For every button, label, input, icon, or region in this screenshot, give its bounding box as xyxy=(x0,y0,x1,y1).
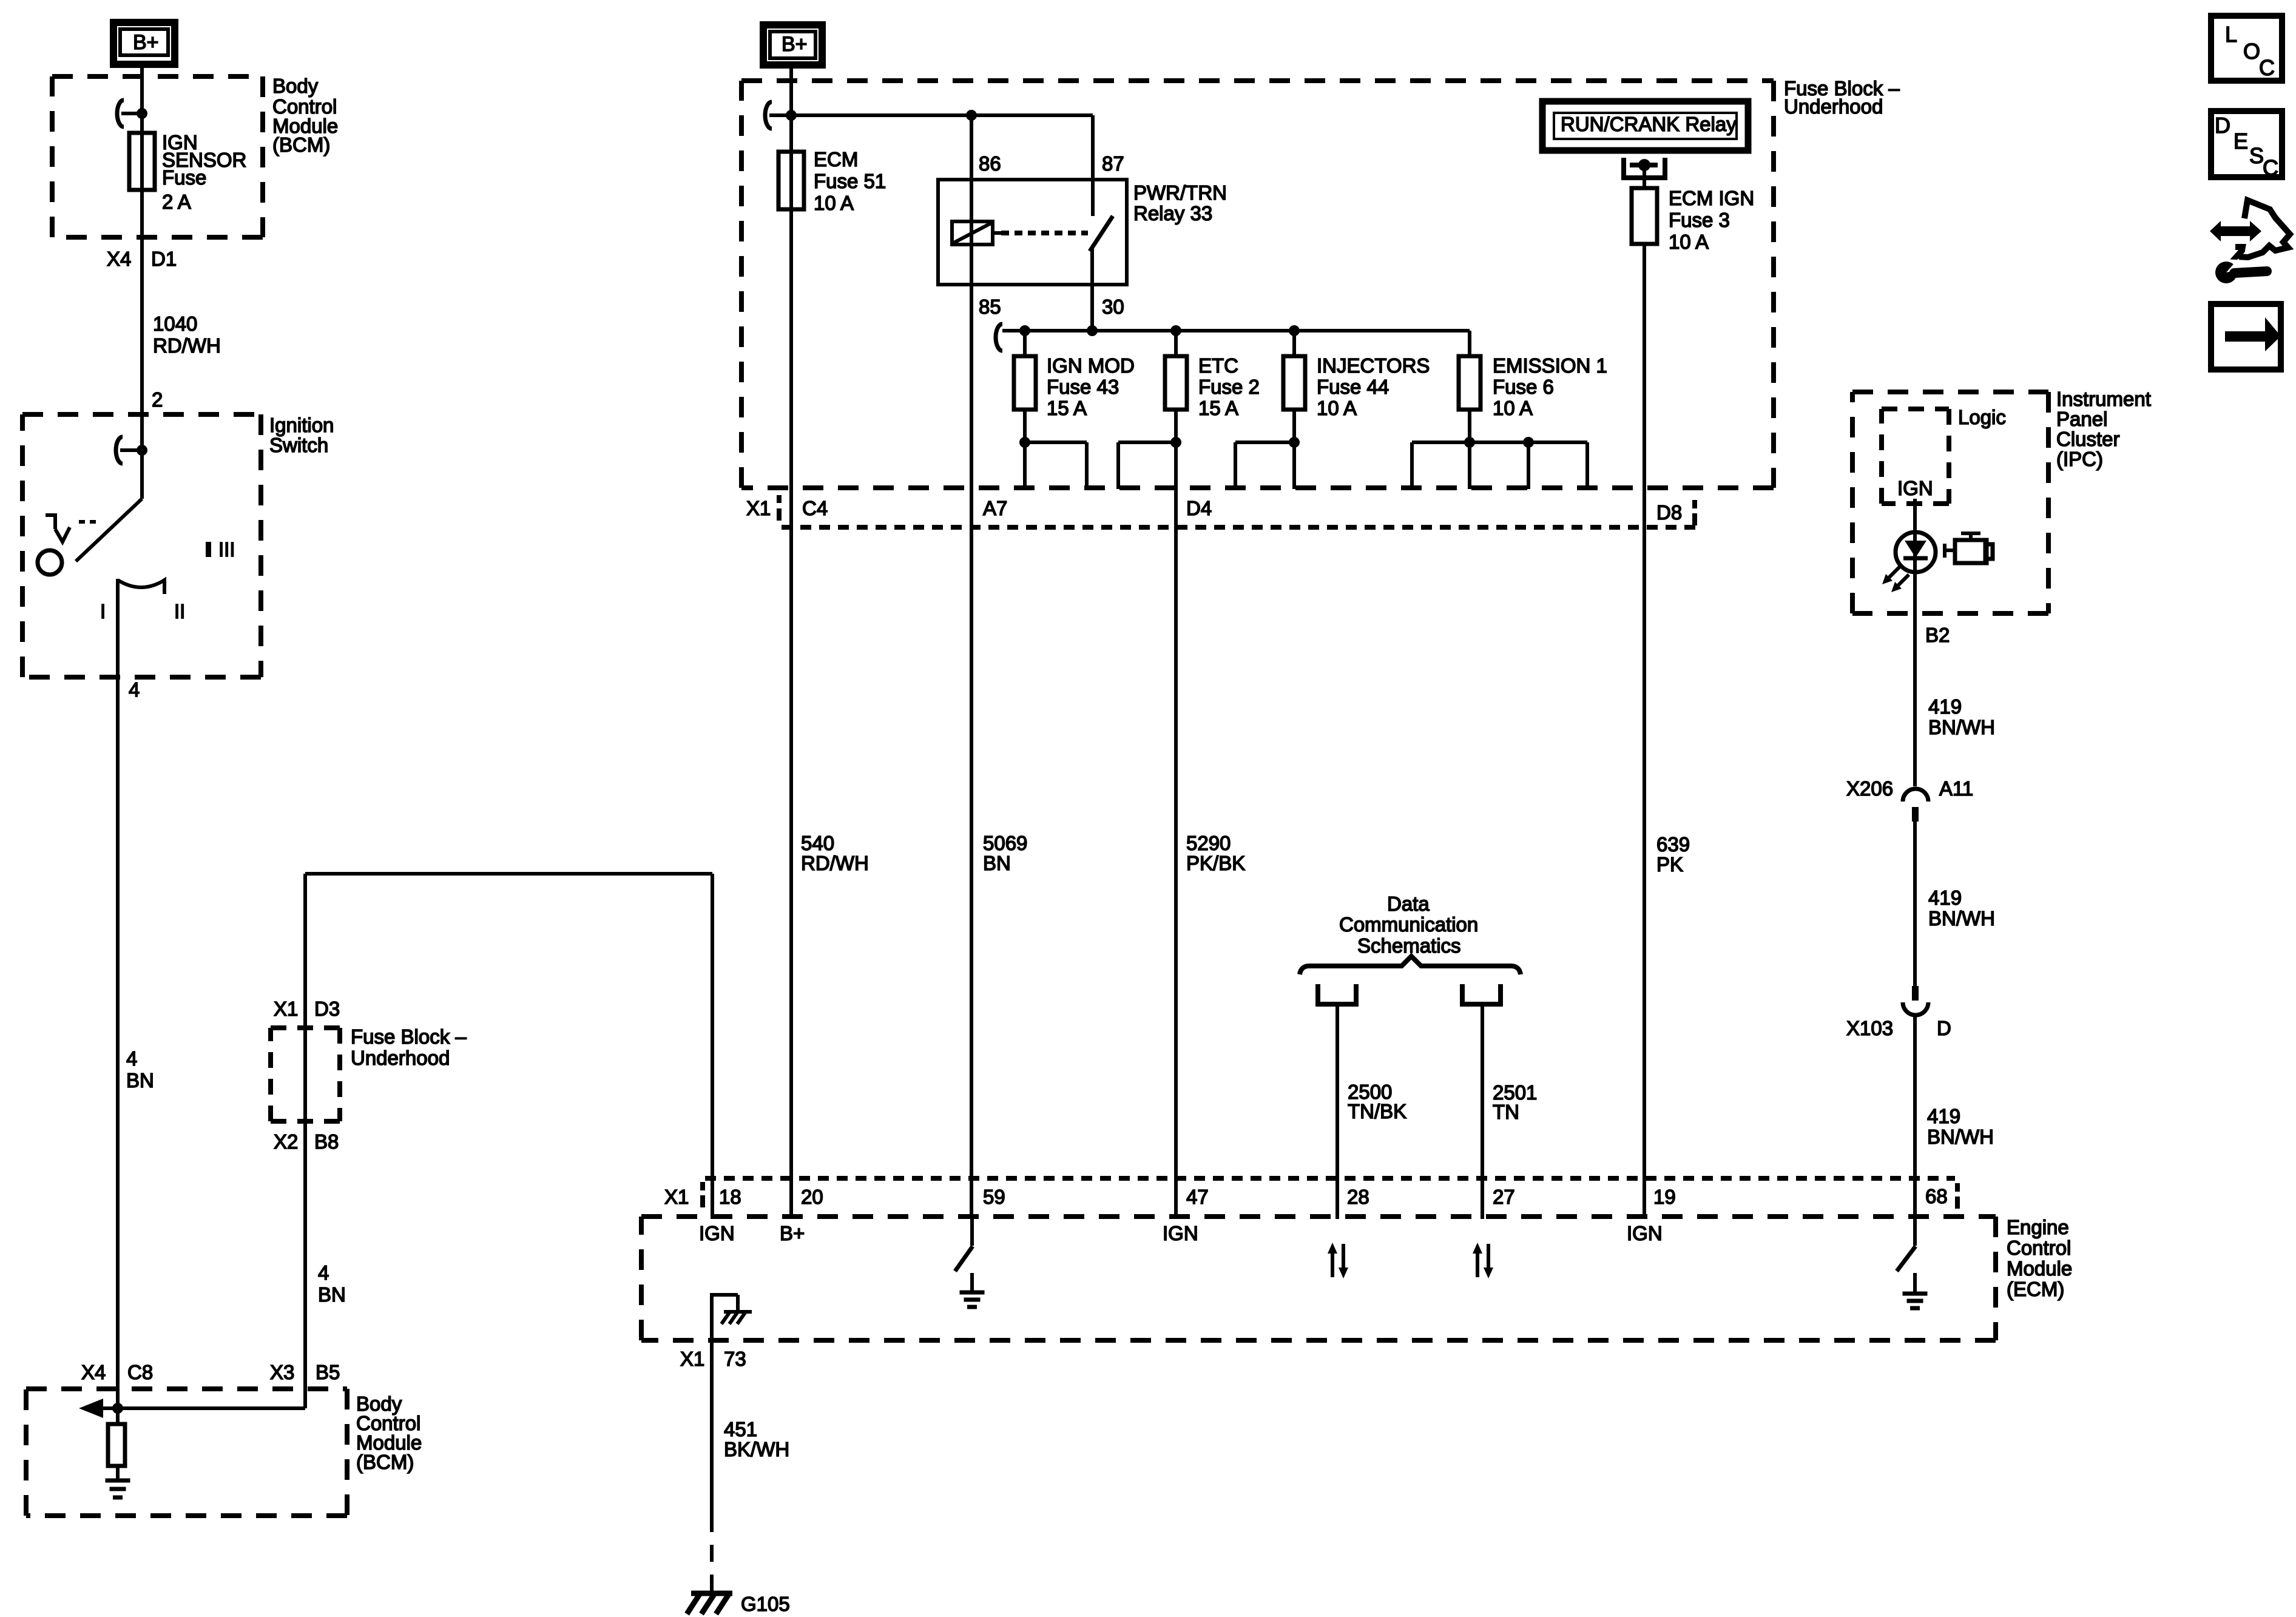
connector cup to data bus (pin 28) xyxy=(1318,984,1356,1219)
fuse ECM Fuse 51 10 A xyxy=(778,152,804,209)
svg-text:O: O xyxy=(2243,39,2260,64)
fuse block underhood pass-through dashed box xyxy=(271,1025,340,1030)
position arc between I and II xyxy=(118,580,164,594)
svg-text:Fuse 3: Fuse 3 xyxy=(1669,209,1730,231)
svg-text:X2: X2 xyxy=(274,1130,298,1153)
connector row X1: C4 A7 D4 D8 xyxy=(746,495,1697,525)
svg-text:IGN MOD: IGN MOD xyxy=(1047,354,1135,377)
ground earth symbol at pin 68 xyxy=(1903,1273,1928,1308)
svg-text:TN/BK: TN/BK xyxy=(1348,1100,1406,1122)
svg-text:2 A: 2 A xyxy=(162,191,191,213)
instrument panel cluster (IPC) dashed box xyxy=(1852,390,2048,394)
svg-text:4: 4 xyxy=(129,678,140,701)
wire ECM IGN fuse to ECM pin 19 xyxy=(1643,244,1646,1219)
svg-text:Ignition: Ignition xyxy=(269,414,334,436)
svg-text:27: 27 xyxy=(1493,1186,1515,1208)
svg-text:(IPC): (IPC) xyxy=(2056,448,2103,470)
svg-text:59: 59 xyxy=(983,1186,1005,1208)
svg-text:B+: B+ xyxy=(780,1222,805,1244)
svg-text:BK/WH: BK/WH xyxy=(724,1438,789,1460)
fuse IGN MOD Fuse 43 xyxy=(1014,331,1135,442)
connector terminal at BCM D1 input xyxy=(117,100,147,127)
wire 87 stub xyxy=(1091,115,1095,216)
svg-text:(ECM): (ECM) xyxy=(2007,1278,2064,1300)
svg-text:Data: Data xyxy=(1387,893,1430,915)
svg-text:ECM IGN: ECM IGN xyxy=(1669,187,1754,209)
wire label 639 PK xyxy=(1656,833,1690,876)
svg-text:A11: A11 xyxy=(1939,777,1973,800)
connector cup to data bus (pin 27) xyxy=(1462,984,1501,1219)
wire label 4 BN (center) xyxy=(318,1261,346,1306)
label PWR/TRN Relay 33 xyxy=(1133,181,1227,224)
svg-text:451: 451 xyxy=(724,1418,757,1440)
svg-text:C4: C4 xyxy=(802,497,828,519)
svg-text:4: 4 xyxy=(126,1047,137,1070)
node junction below IGN MOD fuse xyxy=(1019,437,1030,448)
svg-text:Underhood: Underhood xyxy=(351,1047,450,1069)
svg-text:G105: G105 xyxy=(741,1593,790,1615)
svg-text:X4: X4 xyxy=(107,248,131,270)
connector X206 / A11 xyxy=(1846,777,1973,822)
svg-text:X4: X4 xyxy=(81,1361,106,1383)
wire internal BCM bus with arrow xyxy=(79,1399,305,1418)
svg-text:10 A: 10 A xyxy=(1493,397,1533,419)
wire label 540 RD/WH xyxy=(801,832,869,874)
wire horizontal link to ECM pin 18 xyxy=(305,872,712,876)
wire B+ feed to ECM fuse 51 and pin 20 xyxy=(789,65,793,1219)
svg-text:D8: D8 xyxy=(1656,501,1682,524)
label Body Control Module (BCM) bottom xyxy=(356,1393,422,1473)
svg-text:2: 2 xyxy=(152,388,163,411)
body control module (BCM) top dashed box xyxy=(52,74,263,79)
svg-text:C8: C8 xyxy=(127,1361,153,1383)
ground earth symbol at pin 59 xyxy=(960,1273,985,1307)
ignition switch dashed box xyxy=(22,412,261,417)
svg-text:C: C xyxy=(2259,55,2275,80)
svg-text:B+: B+ xyxy=(133,31,159,54)
icon box LOC xyxy=(2211,16,2282,81)
svg-text:BN/WH: BN/WH xyxy=(1928,907,1995,930)
label Engine Control Module (ECM) xyxy=(2007,1216,2072,1300)
bus bar staple below IGN MOD fuse xyxy=(1025,442,1087,489)
svg-text:D4: D4 xyxy=(1186,497,1212,519)
label Instrument Panel Cluster (IPC) xyxy=(2056,388,2151,470)
relay RUN/CRANK Relay labeled box xyxy=(1542,101,1748,150)
svg-text:Underhood: Underhood xyxy=(1784,95,1883,118)
svg-text:X1: X1 xyxy=(664,1186,689,1208)
svg-text:18: 18 xyxy=(719,1186,741,1208)
svg-text:19: 19 xyxy=(1653,1186,1676,1208)
svg-text:RUN/CRANK Relay: RUN/CRANK Relay xyxy=(1561,113,1737,135)
wire label 5290 PK/BK xyxy=(1186,832,1245,874)
svg-text:419: 419 xyxy=(1928,695,1962,718)
svg-text:Instrument: Instrument xyxy=(2056,388,2151,410)
svg-text:PK: PK xyxy=(1656,853,1683,876)
svg-text:BN/WH: BN/WH xyxy=(1928,716,1995,738)
svg-text:28: 28 xyxy=(1347,1186,1369,1208)
svg-text:D3: D3 xyxy=(314,998,340,1020)
ground G105 chassis symbol xyxy=(687,1593,732,1614)
bus bar staple left of ETC fuse xyxy=(1118,442,1176,489)
node junction BCM xyxy=(112,1403,123,1414)
label Fuse Block - Underhood xyxy=(1784,77,1900,118)
pins X4 C8 X3 B5 xyxy=(81,1361,340,1383)
fuse bus inside fuse block xyxy=(996,324,1470,351)
icon box DESC xyxy=(2211,111,2282,180)
svg-text:Fuse Block –: Fuse Block – xyxy=(351,1025,467,1048)
svg-text:20: 20 xyxy=(801,1186,823,1208)
brace for data communication schematics xyxy=(1300,956,1521,974)
svg-text:B+: B+ xyxy=(782,33,808,56)
wire label 2500 TN/BK xyxy=(1348,1081,1406,1122)
svg-text:ETC: ETC xyxy=(1198,354,1238,377)
svg-text:Schematics: Schematics xyxy=(1357,934,1461,957)
wire relay 30 to fuse bus xyxy=(1090,249,1094,331)
ECM data arrows pin 27 xyxy=(1473,1243,1493,1278)
svg-text:BN: BN xyxy=(318,1283,346,1306)
relay switch blade 87-30 xyxy=(1090,216,1113,251)
fuse ETC Fuse 2 xyxy=(1165,331,1260,442)
indicator light arrows xyxy=(1882,567,1909,592)
svg-text:540: 540 xyxy=(801,832,834,854)
svg-text:Fuse 43: Fuse 43 xyxy=(1047,376,1119,398)
svg-text:15 A: 15 A xyxy=(1198,397,1238,419)
wire ignition switch pin 4 down to BCM (circuit 4 BN) xyxy=(116,579,120,1408)
wire label 451 BK/WH xyxy=(724,1418,789,1460)
wire B+ to ignition switch (circuit 1040) xyxy=(140,65,144,499)
svg-text:10 A: 10 A xyxy=(814,192,854,214)
ECM internal switch at pin 68 xyxy=(1897,1219,1916,1271)
connector terminal at ignition switch pin 2 xyxy=(116,437,147,464)
svg-text:A7: A7 xyxy=(983,497,1007,519)
svg-text:4: 4 xyxy=(318,1261,329,1284)
svg-text:85: 85 xyxy=(979,295,1001,318)
svg-text:10 A: 10 A xyxy=(1669,231,1709,253)
node junction below ETC fuse xyxy=(1170,437,1181,448)
wire label 4 BN (left) xyxy=(126,1047,154,1092)
svg-text:Logic: Logic xyxy=(1958,406,2006,428)
svg-text:B5: B5 xyxy=(316,1361,340,1383)
svg-text:RD/WH: RD/WH xyxy=(801,852,869,874)
relay dashed actuation link xyxy=(1001,231,1088,235)
node junctions below EMISSION 1 fuse xyxy=(1464,437,1475,448)
svg-text:IGN: IGN xyxy=(1897,477,1933,499)
svg-text:47: 47 xyxy=(1186,1186,1209,1208)
svg-text:1040: 1040 xyxy=(153,312,197,335)
svg-text:5290: 5290 xyxy=(1186,832,1231,854)
svg-text:87: 87 xyxy=(1102,152,1124,175)
wire down to fuse block pass-through X1 D3 xyxy=(303,874,307,1408)
check engine icon xyxy=(1944,533,1993,563)
svg-text:10 A: 10 A xyxy=(1317,397,1357,419)
icon wiring connector with arrow and wrench xyxy=(2210,200,2290,283)
svg-text:X1: X1 xyxy=(274,998,298,1020)
relay coil xyxy=(952,221,1001,245)
svg-text:X206: X206 xyxy=(1846,777,1893,800)
svg-text:15 A: 15 A xyxy=(1047,397,1087,419)
svg-text:86: 86 xyxy=(979,152,1001,175)
svg-text:II: II xyxy=(174,600,185,623)
svg-text:B8: B8 xyxy=(314,1130,339,1153)
svg-text:(BCM): (BCM) xyxy=(272,133,330,156)
wire IGN logic to indicator xyxy=(1913,499,1917,786)
label Fuse Block - Underhood (pass-through) xyxy=(351,1025,467,1069)
svg-text:X103: X103 xyxy=(1846,1017,1893,1039)
svg-text:B2: B2 xyxy=(1925,624,1950,646)
node junctions on fuse bus xyxy=(1019,325,1030,336)
fuse ECM IGN Fuse 3 10 A xyxy=(1632,165,1754,253)
svg-text:BN/WH: BN/WH xyxy=(1927,1126,1994,1148)
label Data Communication Schematics xyxy=(1339,893,1478,957)
ECM internal pin names xyxy=(699,1222,1663,1244)
svg-text:Fuse: Fuse xyxy=(162,166,206,189)
svg-text:D1: D1 xyxy=(151,248,177,270)
wire label 419 BN/WH (lower) xyxy=(1927,1105,1994,1148)
svg-text:639: 639 xyxy=(1656,833,1690,856)
svg-text:Module: Module xyxy=(2007,1257,2072,1280)
wire relay coil 86 / fuse 85 feed xyxy=(970,115,973,1219)
internal BCM sense element xyxy=(108,1408,125,1480)
svg-text:X1: X1 xyxy=(680,1348,704,1370)
node junction below INJECTORS fuse xyxy=(1289,437,1300,448)
svg-text:TN: TN xyxy=(1493,1101,1519,1123)
svg-text:X1: X1 xyxy=(746,497,771,519)
svg-text:C: C xyxy=(2263,155,2278,180)
ECM internal chassis ground at pin 73 xyxy=(712,1293,752,1340)
svg-text:IGN: IGN xyxy=(1163,1222,1198,1244)
ECM connector row divider xyxy=(705,1176,1955,1181)
svg-text:Control: Control xyxy=(2007,1237,2071,1259)
indicator LED circle xyxy=(1896,532,1936,572)
wire top bus to relay pins 86/87 xyxy=(791,113,1093,117)
ground earth symbol in BCM xyxy=(106,1479,130,1483)
wire label 1040 RD/WH xyxy=(153,312,221,357)
ECM internal switch at pin 59 xyxy=(955,1219,973,1271)
position III marker xyxy=(206,538,235,561)
svg-text:Panel: Panel xyxy=(2056,408,2107,430)
svg-text:D: D xyxy=(1937,1017,1951,1039)
wire pin 73 to G105 (circuit 451 BK/WH) xyxy=(710,1340,714,1591)
wire down to ECM pin 18 xyxy=(711,874,714,1219)
fuse EMISSION 1 Fuse 6 xyxy=(1459,331,1607,442)
svg-text:Switch: Switch xyxy=(269,434,328,456)
svg-text:Communication: Communication xyxy=(1339,913,1478,936)
svg-text:Fuse 51: Fuse 51 xyxy=(814,170,886,192)
power symbol B+ (fuse block feed) xyxy=(763,25,822,65)
svg-text:D: D xyxy=(2215,113,2230,138)
svg-text:INJECTORS: INJECTORS xyxy=(1317,354,1430,377)
wire ETC fuse to ECM pin 47 xyxy=(1174,410,1178,1219)
ignition key glyph xyxy=(46,515,96,542)
svg-text:Body: Body xyxy=(272,75,319,97)
relay PWR/TRN Relay 33 box xyxy=(938,180,1127,285)
svg-text:EMISSION 1: EMISSION 1 xyxy=(1493,354,1607,377)
svg-text:(BCM): (BCM) xyxy=(356,1451,414,1473)
ignition switch blade xyxy=(76,499,142,561)
icon box forward arrow xyxy=(2211,304,2281,370)
svg-text:X3: X3 xyxy=(270,1361,294,1383)
svg-text:73: 73 xyxy=(724,1348,746,1370)
power symbol B+ (BCM feed) xyxy=(113,22,175,64)
wire X103 to ECM pin 68 xyxy=(1913,1017,1917,1219)
svg-text:I: I xyxy=(100,600,106,623)
label Body Control Module (BCM) xyxy=(272,75,338,156)
svg-text:IGN: IGN xyxy=(1627,1222,1663,1244)
svg-text:RD/WH: RD/WH xyxy=(153,334,221,357)
indicator diode xyxy=(1903,541,1928,558)
connector terminal at fuse block B+ input xyxy=(765,102,797,129)
connector row divider line xyxy=(782,525,1699,530)
svg-text:BN: BN xyxy=(126,1069,154,1092)
svg-text:Relay 33: Relay 33 xyxy=(1133,202,1212,224)
svg-text:E: E xyxy=(2234,129,2248,154)
ECM pin number row xyxy=(664,1182,1960,1209)
svg-text:Cluster: Cluster xyxy=(2056,428,2120,450)
svg-text:30: 30 xyxy=(1102,295,1124,318)
svg-text:PK/BK: PK/BK xyxy=(1186,852,1245,874)
fuse IGN SENSOR 2 A xyxy=(129,133,155,190)
svg-text:IGN: IGN xyxy=(699,1222,735,1244)
ECM data arrows pin 28 xyxy=(1328,1243,1348,1278)
svg-text:III: III xyxy=(218,538,235,561)
svg-text:Engine: Engine xyxy=(2007,1216,2069,1238)
svg-text:419: 419 xyxy=(1927,1105,1960,1127)
svg-text:5069: 5069 xyxy=(983,832,1027,854)
svg-text:S: S xyxy=(2249,143,2264,168)
logic dashed box xyxy=(1882,407,1949,411)
ignition switch rotor circle xyxy=(38,550,62,575)
wire label 5069 BN xyxy=(983,832,1027,874)
node junction 86 xyxy=(966,110,977,121)
wire label 2501 TN xyxy=(1493,1081,1537,1123)
connector X103 / D xyxy=(1846,986,1951,1039)
fuse INJECTORS Fuse 44 xyxy=(1283,331,1430,442)
engine control module (ECM) dashed box xyxy=(641,1214,1996,1219)
svg-text:68: 68 xyxy=(1925,1185,1948,1207)
ECM pin X1 / 73 xyxy=(680,1348,746,1370)
svg-text:ECM: ECM xyxy=(814,148,858,170)
body control module (BCM) bottom dashed box xyxy=(26,1386,347,1391)
wire X206 to X103 xyxy=(1913,822,1917,986)
wire label 419 BN/WH (middle) xyxy=(1928,886,1995,930)
bus bar staple below INJECTORS fuse xyxy=(1235,442,1294,489)
svg-text:PWR/TRN: PWR/TRN xyxy=(1133,181,1227,204)
fuse block underhood large dashed box xyxy=(741,78,1774,83)
bus bar staple below EMISSION 1 fuse xyxy=(1412,442,1587,489)
svg-text:Fuse 44: Fuse 44 xyxy=(1317,376,1389,398)
svg-text:419: 419 xyxy=(1928,886,1962,909)
svg-text:L: L xyxy=(2225,22,2237,47)
wire label 419 BN/WH (upper) xyxy=(1928,695,1995,738)
svg-text:Fuse 6: Fuse 6 xyxy=(1493,376,1554,398)
svg-text:Fuse 2: Fuse 2 xyxy=(1198,376,1260,398)
svg-text:BN: BN xyxy=(983,852,1011,874)
connector terminal below RUN/CRANK relay xyxy=(1621,158,1667,178)
